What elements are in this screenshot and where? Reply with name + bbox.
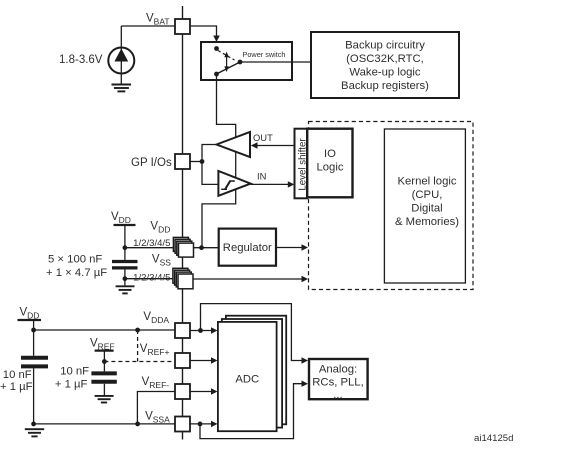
svg-text:1/2/3/4/5: 1/2/3/4/5	[133, 272, 170, 283]
wire dashed VREF+ up to VDDA wire	[137, 330, 139, 362]
svg-text:1.8-3.6V: 1.8-3.6V	[59, 54, 103, 66]
wire source to VBAT pin	[121, 25, 174, 27]
ground (bottom-left)	[25, 429, 44, 436]
node VDD junction	[123, 245, 128, 250]
wire level shifter to OUT buffer with arrow	[255, 145, 295, 147]
wire ground rail to VSSA pin	[34, 423, 176, 425]
wire IN buffer to level shifter with arrow	[251, 183, 289, 185]
svg-text:+ 1 µF: + 1 µF	[0, 381, 33, 393]
wire VDDA pin to ADC with arrow	[190, 330, 213, 332]
wire supply from IN buffer to VDD node	[202, 189, 236, 247]
node VSS junction	[123, 276, 128, 281]
power switch contacts and blade	[214, 46, 242, 76]
pin VSS 1/2/3/4/5 stack	[173, 268, 193, 289]
wire VREF- pin to ADC with arrow	[190, 391, 213, 393]
svg-text:Regulator: Regulator	[223, 242, 272, 254]
schmitt trigger IN buffer	[218, 171, 250, 196]
wire VDDA rail to pin	[34, 329, 176, 331]
svg-text:Wake-up logic: Wake-up logic	[349, 67, 421, 79]
capacitor 10nF+1uF (VDDA)	[21, 358, 48, 367]
voltage source VBAT 1.8-3.6V	[108, 26, 134, 85]
svg-text:IO: IO	[324, 148, 336, 160]
node VSSA ground junction	[31, 422, 36, 427]
svg-text:(CPU,: (CPU,	[412, 189, 443, 201]
svg-text:+ 1 × 4.7 µF: + 1 × 4.7 µF	[46, 267, 107, 279]
ground (VSS mid)	[116, 286, 135, 293]
svg-text:1/2/3/4/5: 1/2/3/4/5	[133, 238, 170, 249]
svg-text:OUT: OUT	[253, 132, 273, 143]
svg-text:Digital: Digital	[411, 203, 442, 215]
wire VSSA around ADC to analog with arrow	[200, 384, 304, 439]
node VDDA junction	[31, 328, 36, 333]
kernel logic box	[384, 129, 465, 283]
svg-text:5 × 100 nF: 5 × 100 nF	[48, 254, 102, 266]
wire switched supply down to OUT buffer	[217, 74, 236, 137]
capacitor 5x100nF	[112, 262, 138, 268]
capacitor 10nF+1uF (VREF)	[91, 373, 116, 381]
wire VREF- pin to ground rail	[137, 392, 175, 424]
node VREF- junction on VSSA wire	[135, 422, 140, 427]
svg-text:Power switch: Power switch	[243, 50, 286, 59]
svg-text:Analog:: Analog:	[319, 364, 357, 376]
svg-text:ADC: ADC	[235, 373, 259, 385]
svg-text:RCs, PLL,: RCs, PLL,	[312, 377, 363, 389]
svg-text:Backup registers): Backup registers)	[341, 80, 429, 92]
IO Logic box	[307, 129, 352, 198]
wire cap to ground	[124, 270, 126, 287]
dashed core domain box	[309, 122, 474, 290]
wire supply between OUT and IN buffers	[235, 152, 237, 178]
pin VREF-	[175, 384, 190, 399]
wire chip-edge vertical line	[182, 6, 184, 440]
wire VDD bottom rail down	[33, 320, 35, 356]
ground (source)	[112, 85, 132, 92]
svg-text:+ 1 µF: + 1 µF	[55, 379, 88, 391]
wire VSS pin to core with arrow	[193, 278, 304, 280]
wire VSS to pin stack	[125, 278, 179, 280]
pin GP I/Os	[175, 154, 190, 169]
regulator U regulator box	[219, 229, 276, 266]
wire VREF cap to ground	[103, 384, 105, 396]
svg-text:ai14125d: ai14125d	[474, 433, 513, 444]
svg-text:...: ...	[333, 389, 342, 401]
wire cap down to ground node	[33, 368, 35, 424]
svg-text:& Memories): & Memories)	[395, 216, 459, 228]
svg-text:Kernel logic: Kernel logic	[397, 176, 456, 188]
node GP I/Os junction	[200, 159, 205, 164]
ADC block stack	[226, 316, 286, 425]
level shifter box	[295, 129, 308, 199]
svg-text:10 nF: 10 nF	[3, 369, 32, 381]
pin VREF+	[175, 353, 190, 368]
svg-text:IN: IN	[257, 171, 266, 182]
wire OUT buffer to GP I/Os node	[202, 145, 217, 162]
power switch box	[201, 42, 292, 80]
wire regulator to core with arrow	[276, 247, 304, 249]
wire VDDA around ADC to analog with arrow	[201, 304, 304, 361]
wire VSSA pin to ADC with arrow	[190, 423, 213, 425]
wire VDD pin to regulator	[194, 247, 219, 249]
wire VBAT to power switch	[190, 26, 217, 37]
pin VDD 1/2/3/4/5 stack	[173, 237, 193, 257]
pin VSSA	[175, 417, 190, 432]
schmitt hysteresis symbol	[221, 181, 235, 189]
svg-text:10 nF: 10 nF	[60, 366, 89, 378]
ground (VREF)	[95, 396, 114, 403]
power rail VDD bar bottom	[18, 319, 42, 321]
power rail VREF bar	[95, 350, 114, 352]
wire VDD rail down	[124, 225, 126, 260]
node VDDA analog junction	[198, 328, 203, 333]
svg-text:Backup circuitry: Backup circuitry	[345, 40, 425, 52]
wire dashed VREF to VREF+ pin	[104, 361, 175, 363]
op-amp OUT buffer	[217, 132, 251, 157]
wire VDD to pin stack	[125, 247, 179, 249]
pin VDDA	[175, 323, 190, 338]
wire GP I/Os pin to node	[190, 161, 202, 163]
pin VBAT	[175, 19, 190, 34]
power rail VDD bar	[114, 224, 136, 226]
wire VREF rail down	[103, 351, 105, 372]
node VREF+ dashed junction on VDDA wire	[135, 328, 140, 333]
svg-text:Logic: Logic	[316, 162, 343, 174]
node VREF junction	[102, 359, 107, 364]
node regulator supply junction	[199, 245, 204, 250]
wire node to IN buffer	[202, 162, 218, 185]
svg-text:(OSC32K,RTC,: (OSC32K,RTC,	[346, 53, 424, 65]
svg-text:GP I/Os: GP I/Os	[131, 157, 172, 169]
node VSSA analog junction	[198, 422, 203, 427]
wire VREF+ pin to ADC with arrow	[190, 360, 213, 362]
analog block box	[309, 359, 368, 399]
backup circuitry box	[311, 32, 459, 98]
wire power switch to backup box	[240, 61, 311, 63]
